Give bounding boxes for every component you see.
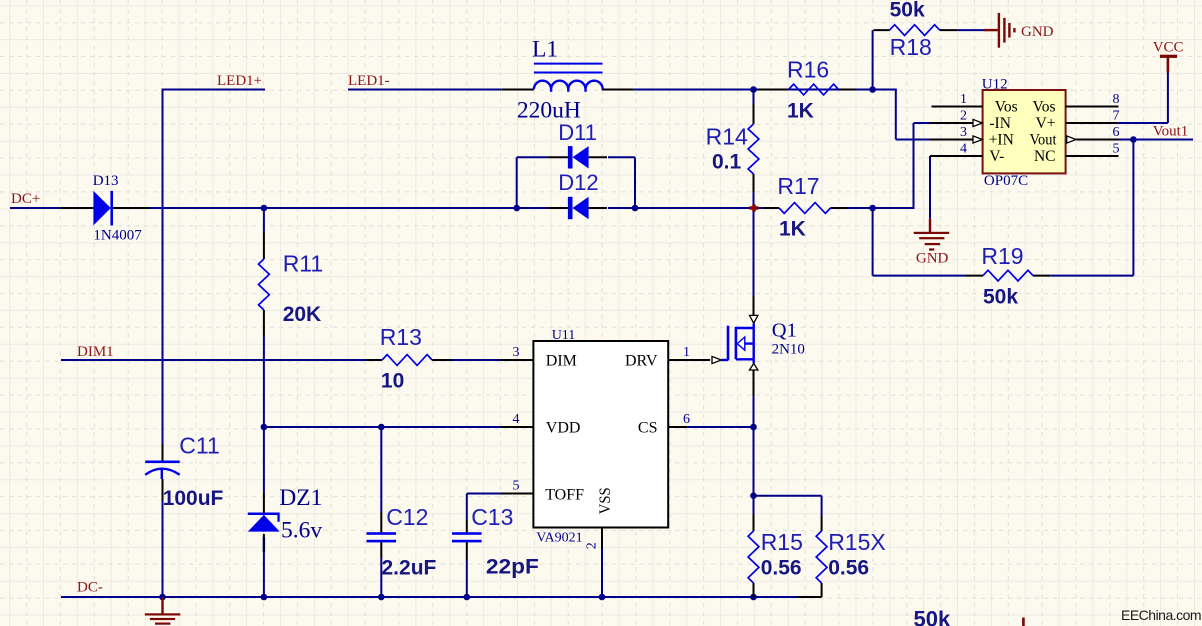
svg-text:8: 8 <box>1113 92 1120 107</box>
label U12 <box>982 77 1008 93</box>
svg-text:5: 5 <box>1113 142 1120 157</box>
label R17 value <box>779 218 806 241</box>
svg-text:1K: 1K <box>787 100 814 123</box>
wire LED1+ riser to C11 <box>162 89 164 445</box>
svg-text:1N4007: 1N4007 <box>93 228 142 244</box>
label R13 value <box>381 369 404 392</box>
svg-text:2.2uF: 2.2uF <box>382 557 437 580</box>
wire C13 bottom <box>466 560 468 597</box>
svg-text:LED1+: LED1+ <box>217 73 262 89</box>
net label VCC <box>1153 40 1184 56</box>
svg-text:2N10: 2N10 <box>772 342 805 358</box>
label R16 value <box>787 100 814 123</box>
svg-text:R13: R13 <box>380 324 422 350</box>
wire VSS to DC- <box>601 549 603 597</box>
svg-text:-IN: -IN <box>989 115 1011 132</box>
wire TOFF to C13 <box>467 494 501 521</box>
wire pin4 riser to GND <box>929 156 931 219</box>
zener DZ1 <box>248 492 280 597</box>
svg-text:1: 1 <box>960 92 967 107</box>
label R14 value <box>712 151 742 174</box>
wire R17 junction to R19 <box>873 208 966 276</box>
svg-text:R17: R17 <box>777 173 819 199</box>
label U11 <box>552 328 576 343</box>
resistor R13 <box>366 355 452 366</box>
wire R19 to Vout riser <box>1050 140 1133 276</box>
svg-text:NC: NC <box>1034 148 1056 165</box>
wire C11 bottom to DC- <box>162 500 164 597</box>
svg-text:Q1: Q1 <box>772 319 797 341</box>
svg-text:0.1: 0.1 <box>712 151 742 174</box>
resistor R18 <box>874 25 958 36</box>
wire pin7 to VCC <box>1117 73 1168 124</box>
resistor R11 <box>259 232 270 336</box>
label 220uH <box>517 98 581 124</box>
net label DC- <box>77 580 103 596</box>
svg-text:OP07C: OP07C <box>984 173 1028 189</box>
wire R13 to DIM pin <box>452 359 501 361</box>
wire rail-A corner to +IN <box>896 90 930 140</box>
capacitor C11 <box>145 444 180 500</box>
wire R15 bottom rail <box>754 596 822 598</box>
svg-text:+IN: +IN <box>989 132 1014 149</box>
wire R15 top rail <box>754 495 822 497</box>
label L1 <box>532 37 558 63</box>
wire R18 to GND <box>957 29 983 31</box>
diode D12 <box>548 197 607 219</box>
svg-text:3: 3 <box>960 125 967 140</box>
IC U11 body and pins <box>501 341 722 549</box>
svg-text:DC+: DC+ <box>11 191 40 207</box>
svg-text:1: 1 <box>683 345 690 360</box>
svg-text:CS: CS <box>638 419 658 436</box>
wire LED1- segment <box>348 89 501 91</box>
wire R17 to -IN riser <box>847 123 930 208</box>
svg-text:6: 6 <box>1113 125 1120 140</box>
wire DIM1 rail <box>61 359 366 361</box>
op-amp U12 body and pins <box>930 90 1119 173</box>
label bottom 50k <box>914 606 951 626</box>
inductor L1 <box>501 64 633 92</box>
wire LED1- to R14 top <box>0 0 1 1</box>
svg-text:2: 2 <box>585 542 600 549</box>
resistor R15X <box>816 516 827 597</box>
svg-text:U12: U12 <box>982 77 1008 93</box>
label R19 <box>981 243 1023 269</box>
svg-text:GND: GND <box>1021 24 1054 40</box>
net label GND top <box>1021 24 1054 40</box>
label R16 <box>787 57 829 83</box>
label R15 value <box>761 557 802 580</box>
wire R14 to Q1 drain <box>753 192 755 296</box>
capacitor C12 <box>367 512 397 558</box>
svg-text:D13: D13 <box>93 173 119 189</box>
label VA9021 <box>536 531 582 546</box>
svg-text:U11: U11 <box>552 328 576 343</box>
net label DIM1 <box>77 344 114 360</box>
wire C12 bottom <box>380 558 382 597</box>
svg-text:22pF: 22pF <box>486 556 539 579</box>
label C13 <box>471 504 513 530</box>
svg-text:D12: D12 <box>558 170 598 195</box>
svg-text:R16: R16 <box>787 57 829 83</box>
svg-text:R18: R18 <box>890 34 932 60</box>
U11 pin names <box>545 352 658 514</box>
svg-text:20K: 20K <box>283 303 322 326</box>
svg-text:Vout1: Vout1 <box>1153 124 1189 140</box>
U11 pin numbers <box>513 345 691 549</box>
resistor R16 <box>758 84 856 95</box>
resistor R15 <box>748 514 759 597</box>
wire R15X riser top <box>821 496 823 516</box>
svg-text:GND: GND <box>916 251 949 267</box>
svg-text:C13: C13 <box>471 504 513 530</box>
label C11 <box>179 433 220 459</box>
svg-text:DRV: DRV <box>625 352 658 369</box>
wire Vout1 <box>1119 139 1194 141</box>
svg-text:VCC: VCC <box>1153 40 1184 56</box>
wire DC- rail <box>61 596 754 598</box>
resistor R17 <box>763 203 847 214</box>
net label LED1+ <box>217 73 262 89</box>
power GND bottom partial <box>1022 618 1025 626</box>
wire L1 to R16 <box>633 89 897 91</box>
svg-text:R15: R15 <box>761 529 803 555</box>
svg-text:R14: R14 <box>706 124 748 150</box>
svg-text:VA9021: VA9021 <box>536 531 582 546</box>
wire R11 column upper <box>263 208 265 232</box>
label Q1 <box>772 319 797 341</box>
svg-text:V+: V+ <box>1036 115 1056 132</box>
svg-text:VDD: VDD <box>546 419 581 436</box>
resistor R14 <box>748 90 759 193</box>
svg-text:R11: R11 <box>283 251 324 277</box>
svg-text:4: 4 <box>513 412 520 427</box>
svg-text:EEChina.com: EEChina.com <box>1121 607 1201 623</box>
svg-text:Vout: Vout <box>1030 132 1058 149</box>
no-ERC cross marker <box>750 204 759 211</box>
label R19 value <box>983 286 1018 309</box>
net label LED1- <box>348 73 390 89</box>
svg-text:V-: V- <box>989 148 1004 165</box>
capacitor C13 <box>452 520 482 560</box>
wire LED1+ segment <box>163 89 266 91</box>
svg-text:0.56: 0.56 <box>828 557 869 580</box>
svg-text:Vos: Vos <box>1033 99 1056 116</box>
svg-text:50k: 50k <box>914 606 951 626</box>
label R11 <box>283 251 324 277</box>
svg-text:0.56: 0.56 <box>761 557 802 580</box>
wire DC+ after D12 <box>608 207 763 209</box>
wire Q1 source to R15 <box>753 396 755 514</box>
label R15X value <box>828 557 869 580</box>
watermark EEChina.com <box>1121 607 1201 623</box>
svg-text:Vos: Vos <box>995 99 1018 116</box>
svg-text:6: 6 <box>683 412 690 427</box>
wire C12 top <box>380 427 382 512</box>
label R14 <box>706 124 748 150</box>
net label Vout1 <box>1153 124 1189 140</box>
wire DC+ middle <box>150 207 548 209</box>
label D11 <box>558 120 597 145</box>
wire D11 left riser <box>516 157 518 208</box>
label D12 <box>558 170 598 195</box>
resistor R19 <box>965 270 1050 281</box>
label R18 <box>890 34 932 60</box>
power GND bottom-left <box>145 597 181 625</box>
svg-text:100uF: 100uF <box>163 487 224 510</box>
label D13 <box>93 173 119 189</box>
svg-text:50k: 50k <box>983 286 1018 309</box>
svg-text:4: 4 <box>960 142 967 157</box>
power VCC <box>1160 55 1177 73</box>
label C12 <box>386 504 428 530</box>
label 1N4007 <box>93 228 142 244</box>
label C13 value <box>486 556 539 579</box>
label R18 value <box>890 0 925 22</box>
wire R11 to VDD <box>263 336 265 492</box>
svg-text:DIM1: DIM1 <box>77 344 114 360</box>
transistor Q1 <box>710 296 758 396</box>
svg-text:3: 3 <box>513 345 520 360</box>
power GND top <box>984 13 1016 48</box>
wire D11 row left <box>517 156 548 158</box>
diode D13 <box>60 191 150 226</box>
label R13 <box>380 324 422 350</box>
svg-text:1K: 1K <box>779 218 806 241</box>
svg-text:5: 5 <box>513 479 520 494</box>
label R11 value <box>283 303 322 326</box>
svg-text:L1: L1 <box>532 37 558 63</box>
power GND mid <box>914 219 950 251</box>
label C12 value <box>382 557 437 580</box>
svg-text:50k: 50k <box>890 0 925 22</box>
wire CS to Q1 <box>687 426 753 428</box>
svg-text:DIM: DIM <box>546 352 577 369</box>
wire D11 right riser <box>634 157 636 208</box>
svg-text:C11: C11 <box>179 433 220 459</box>
label R17 <box>777 173 819 199</box>
svg-text:DZ1: DZ1 <box>279 485 322 511</box>
svg-text:LED1-: LED1- <box>348 73 390 89</box>
svg-text:2: 2 <box>960 109 967 124</box>
svg-text:D11: D11 <box>558 120 597 145</box>
net label DC+ <box>11 191 40 207</box>
svg-text:7: 7 <box>1113 109 1120 124</box>
svg-text:R19: R19 <box>981 243 1023 269</box>
label DZ1 value <box>281 518 322 544</box>
wire DC+ left <box>10 207 60 209</box>
svg-text:R15X: R15X <box>828 529 886 555</box>
svg-text:VSS: VSS <box>597 487 614 514</box>
svg-text:5.6v: 5.6v <box>281 518 322 544</box>
svg-text:10: 10 <box>381 369 404 392</box>
U12 pin numbers <box>960 92 1120 157</box>
label DZ1 <box>279 485 322 511</box>
label C11 value <box>163 487 224 510</box>
svg-text:C12: C12 <box>386 504 428 530</box>
label 2N10 <box>772 342 805 358</box>
wire pin2 stub <box>914 122 931 124</box>
net label GND mid <box>916 251 949 267</box>
label R15 <box>761 529 803 555</box>
label OP07C <box>984 173 1028 189</box>
wire VDD rail <box>264 426 501 428</box>
diode D11 <box>548 146 607 168</box>
wire R18 riser <box>872 30 874 89</box>
svg-text:TOFF: TOFF <box>545 486 584 503</box>
wire D11 row right <box>608 156 635 158</box>
label R15X <box>828 529 886 555</box>
wire DZ1 to DC- <box>263 552 265 597</box>
U12 pin names <box>989 99 1057 166</box>
svg-text:DC-: DC- <box>77 580 103 596</box>
